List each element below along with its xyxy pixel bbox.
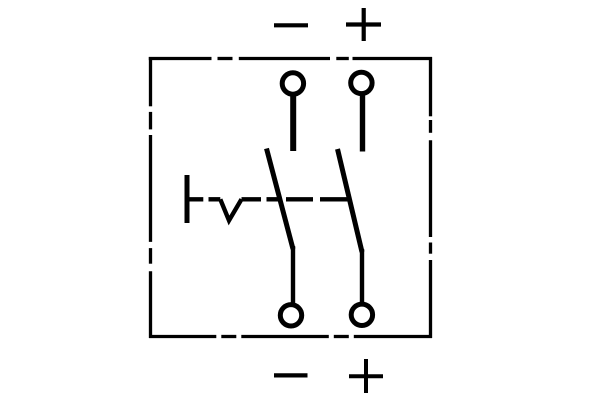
terminal circle, top left (-) bbox=[282, 73, 303, 94]
enclosure border, right edge (dash-dot) bbox=[429, 57, 432, 338]
enclosure border, top edge (dash-dot) bbox=[149, 57, 432, 60]
wire: lead from top-left terminal down to contact gap bbox=[290, 96, 296, 151]
terminal circle, bottom right (+) bbox=[351, 304, 372, 325]
label - (bottom, polarity of left terminal) bbox=[274, 373, 308, 377]
switch pole 2: moving blade (right) bbox=[338, 149, 363, 252]
mechanical linkage (dashed) with latching notch, couples both poles bbox=[185, 199, 349, 220]
wire: blade pivot down to bottom-right terminal bbox=[360, 249, 364, 305]
manual actuator bar bbox=[185, 175, 190, 223]
enclosure border, left edge (dash-dot) bbox=[149, 57, 152, 338]
switch pole 1: moving blade (left) bbox=[267, 149, 294, 250]
wire: blade pivot down to bottom-left terminal bbox=[291, 246, 295, 306]
wire: lead from top-right terminal down to contact gap bbox=[360, 96, 365, 152]
terminal circle, bottom left (-) bbox=[280, 305, 301, 326]
label + (bottom, polarity of right terminal) bbox=[349, 359, 383, 393]
label + (top, polarity of right terminal) bbox=[346, 8, 381, 41]
label - (top, polarity of left terminal) bbox=[274, 23, 308, 27]
terminal circle, top right (+) bbox=[351, 72, 372, 93]
enclosure border, bottom edge (dash-dot) bbox=[149, 335, 432, 338]
